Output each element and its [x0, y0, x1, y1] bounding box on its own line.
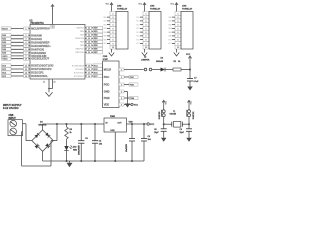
svg-text:VCC: VCC: [150, 124, 155, 126]
svg-text:RC4: RC4: [136, 32, 139, 34]
svg-text:2: 2: [26, 35, 27, 37]
svg-text:24: 24: [88, 37, 90, 40]
svg-text:1: 1: [113, 13, 114, 15]
svg-text:4: 4: [26, 41, 27, 44]
svg-text:8: 8: [146, 40, 147, 42]
svg-text:Y1: Y1: [173, 111, 175, 113]
svg-text:PGD: PGD: [130, 84, 135, 86]
svg-text:RC6: RC6: [168, 39, 171, 41]
svg-text:D10: D10: [73, 147, 76, 149]
svg-text:RB0: RB0: [94, 28, 98, 30]
svg-text:16: 16: [88, 69, 90, 71]
svg-text:RC1: RC1: [2, 69, 6, 71]
svg-text:6: 6: [178, 32, 179, 34]
svg-text:2: 2: [178, 17, 179, 19]
svg-text:0.1uF: 0.1uF: [194, 81, 200, 83]
svg-text:RC5: RC5: [136, 36, 139, 38]
svg-text:1: 1: [178, 13, 179, 15]
svg-text:RC7: RC7: [94, 76, 98, 78]
svg-text:4: 4: [113, 24, 114, 27]
svg-text:RB5: RB5: [94, 45, 98, 47]
svg-text:OSC4M: OSC4M: [170, 113, 177, 116]
svg-text:9-12 VAC/DC: 9-12 VAC/DC: [3, 106, 19, 110]
svg-text:4: 4: [178, 24, 179, 27]
svg-text:GND: GND: [104, 90, 110, 94]
svg-text:RB5: RB5: [80, 45, 84, 47]
svg-text:RB7/PGD: RB7/PGD: [75, 52, 84, 54]
svg-text:12: 12: [43, 81, 45, 83]
svg-text:C9: C9: [180, 129, 182, 131]
svg-text:RB6: RB6: [94, 49, 98, 51]
svg-text:6: 6: [121, 104, 122, 106]
svg-text:10: 10: [177, 47, 179, 49]
svg-text:10: 10: [25, 59, 27, 61]
svg-text:VDD: VDD: [104, 103, 110, 107]
svg-text:RC7: RC7: [136, 43, 139, 45]
svg-text:RB2: RB2: [80, 35, 84, 37]
svg-text:RC4/SDI/SDA: RC4/SDI/SDA: [72, 64, 85, 67]
svg-text:RC0: RC0: [2, 65, 6, 67]
svg-text:RC3: RC3: [136, 28, 139, 30]
svg-text:31: 31: [54, 81, 56, 83]
svg-text:7805: 7805: [110, 116, 116, 118]
svg-text:RB7: RB7: [103, 43, 106, 45]
svg-text:26: 26: [88, 45, 90, 47]
svg-text:7: 7: [178, 36, 179, 38]
svg-text:5: 5: [121, 98, 122, 100]
svg-text:CN2: CN2: [117, 5, 122, 7]
svg-text:RED: RED: [73, 150, 78, 152]
svg-text:6: 6: [113, 32, 114, 34]
svg-text:7: 7: [113, 36, 114, 38]
svg-text:RC5/SDO: RC5/SDO: [75, 69, 84, 71]
svg-text:PGM: PGM: [130, 98, 135, 100]
svg-text:9: 9: [146, 43, 147, 45]
svg-text:27: 27: [88, 49, 90, 51]
svg-text:RB5: RB5: [103, 36, 106, 38]
svg-text:1000uF/25V: 1000uF/25V: [78, 144, 80, 155]
svg-text:6: 6: [146, 32, 147, 34]
svg-text:10: 10: [112, 47, 114, 49]
svg-text:PGM: PGM: [104, 96, 110, 100]
svg-text:RB7: RB7: [94, 52, 98, 54]
svg-text:18: 18: [88, 76, 90, 78]
svg-text:RC1: RC1: [136, 21, 139, 23]
svg-text:RB1: RB1: [103, 21, 106, 23]
svg-text:RA0: RA0: [2, 34, 6, 37]
svg-text:8: 8: [178, 40, 179, 42]
svg-text:8: 8: [113, 40, 114, 42]
svg-text:CN4: CN4: [182, 4, 187, 7]
svg-text:RB4: RB4: [80, 42, 84, 44]
svg-text:17: 17: [88, 72, 90, 74]
svg-text:RC7: RC7: [168, 43, 171, 45]
svg-text:1: 1: [121, 69, 122, 71]
svg-text:C5: C5: [85, 138, 87, 140]
svg-text:4: 4: [146, 24, 147, 27]
svg-text:14: 14: [25, 75, 27, 78]
svg-text:PIC16F877A: PIC16F877A: [31, 22, 45, 25]
svg-text:7: 7: [146, 36, 147, 38]
svg-text:RC6: RC6: [94, 72, 98, 74]
svg-text:25: 25: [88, 42, 90, 44]
svg-text:PGD: PGD: [104, 83, 110, 87]
svg-text:RB6: RB6: [103, 39, 106, 41]
svg-text:TORELAY: TORELAY: [182, 7, 193, 10]
svg-text:RC7/RX/DT: RC7/RX/DT: [74, 76, 85, 78]
svg-text:MCLR: MCLR: [2, 28, 8, 30]
svg-text:RB3: RB3: [94, 38, 98, 40]
svg-text:RC6: RC6: [136, 39, 139, 41]
svg-text:15: 15: [88, 65, 90, 67]
svg-text:9: 9: [178, 43, 179, 45]
svg-text:5: 5: [113, 28, 114, 30]
svg-text:1: 1: [26, 28, 27, 30]
svg-text:2: 2: [121, 77, 122, 79]
svg-text:RB2: RB2: [94, 35, 98, 37]
svg-text:RB1: RB1: [80, 31, 84, 33]
svg-text:R9: R9: [70, 129, 72, 131]
svg-text:RA2: RA2: [2, 41, 6, 44]
svg-text:1N4148: 1N4148: [156, 60, 164, 63]
svg-text:RB0: RB0: [103, 17, 106, 19]
svg-text:2: 2: [113, 17, 114, 19]
svg-text:28: 28: [88, 52, 90, 54]
svg-text:C6: C6: [148, 136, 150, 138]
svg-text:5: 5: [178, 28, 179, 30]
svg-text:21: 21: [88, 28, 90, 30]
svg-text:RC0: RC0: [136, 17, 139, 19]
svg-text:RB3/PGM: RB3/PGM: [75, 38, 84, 40]
svg-text:RB2: RB2: [103, 24, 106, 26]
svg-text:5: 5: [146, 28, 147, 30]
svg-text:INPUT SUPPLY: INPUT SUPPLY: [3, 103, 22, 107]
svg-text:RA1: RA1: [2, 38, 6, 41]
svg-text:10uF/25V: 10uF/25V: [126, 143, 128, 152]
svg-text:OSC2/CLKOUT: OSC2/CLKOUT: [31, 58, 49, 61]
svg-text:3: 3: [146, 21, 147, 23]
svg-text:PGC: PGC: [130, 77, 135, 79]
svg-text:JUMPER: JUMPER: [141, 60, 150, 62]
svg-text:TORELAY: TORELAY: [117, 7, 128, 10]
svg-text:RB1: RB1: [94, 31, 98, 33]
svg-text:C8: C8: [154, 129, 156, 131]
svg-text:12: 12: [25, 69, 27, 71]
svg-text:GND: GND: [110, 130, 115, 132]
svg-text:MCLR: MCLR: [104, 68, 112, 72]
svg-text:VCC: VCC: [134, 104, 139, 106]
svg-text:RB3: RB3: [103, 28, 106, 30]
svg-text:13: 13: [25, 72, 27, 74]
svg-text:VCC: VCC: [186, 54, 191, 56]
svg-text:6: 6: [26, 49, 27, 51]
svg-text:4: 4: [121, 90, 122, 93]
svg-text:RC3/SCK/SCL: RC3/SCK/SCL: [31, 75, 48, 78]
svg-text:23: 23: [88, 35, 90, 37]
svg-text:MCLR/VPP/THV: MCLR/VPP/THV: [31, 28, 50, 31]
svg-text:JUMPER: JUMPER: [193, 111, 195, 120]
svg-text:3: 3: [178, 21, 179, 23]
svg-text:RB4: RB4: [103, 32, 106, 34]
svg-text:RC3: RC3: [2, 76, 6, 78]
svg-text:CN5: CN5: [103, 56, 108, 58]
svg-text:RC5: RC5: [94, 69, 98, 71]
svg-text:10: 10: [145, 47, 147, 49]
svg-text:OSC2: OSC2: [2, 59, 7, 61]
svg-text:3: 3: [121, 84, 122, 86]
svg-text:5: 5: [26, 46, 27, 48]
svg-text:22: 22: [88, 31, 90, 33]
svg-text:TORELAY: TORELAY: [150, 7, 161, 10]
svg-text:1: 1: [146, 13, 147, 15]
svg-text:RB6/PGC: RB6/PGC: [75, 49, 84, 51]
svg-text:RC2: RC2: [136, 24, 139, 26]
svg-text:RB0/INT: RB0/INT: [77, 28, 85, 30]
svg-text:JUMPER: JUMPER: [159, 111, 161, 120]
svg-text:11: 11: [25, 65, 27, 67]
svg-text:RC2: RC2: [2, 72, 6, 74]
svg-text:CN3: CN3: [150, 5, 155, 7]
svg-text:3: 3: [26, 39, 27, 41]
svg-text:32: 32: [52, 27, 54, 29]
svg-text:PGC: PGC: [104, 75, 110, 79]
svg-text:2: 2: [146, 17, 147, 19]
svg-text:RA3: RA3: [2, 45, 6, 48]
svg-text:RC6/TX/CK: RC6/TX/CK: [74, 72, 85, 74]
svg-text:3: 3: [113, 21, 114, 23]
svg-text:9: 9: [113, 43, 114, 45]
svg-text:ICSP: ICSP: [103, 59, 109, 61]
